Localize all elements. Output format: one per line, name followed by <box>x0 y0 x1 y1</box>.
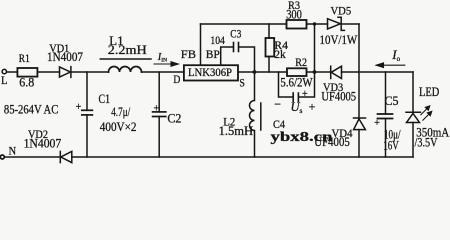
resistor R4 <box>266 38 275 57</box>
svg-text:C2: C2 <box>167 111 181 126</box>
S pin wire <box>238 71 287 73</box>
resistor R2 <box>287 68 307 76</box>
capacitor C3 <box>234 43 255 73</box>
svg-text:1N4007: 1N4007 <box>24 136 62 151</box>
svg-text:L: L <box>1 73 8 87</box>
junction R2 right node <box>313 70 317 74</box>
output wire VD3 to LED corner <box>342 71 414 73</box>
svg-text:LED: LED <box>419 84 439 99</box>
diode VD2 <box>60 151 72 162</box>
svg-text:85-264V AC: 85-264V AC <box>4 102 58 117</box>
svg-text:S: S <box>239 76 245 90</box>
svg-text:+: + <box>302 89 308 100</box>
junction S node <box>253 70 257 74</box>
svg-text:/3.5V: /3.5V <box>415 135 438 150</box>
resistor R1 <box>17 68 37 77</box>
svg-text:2.2mH: 2.2mH <box>108 42 147 57</box>
diode VD4 <box>354 118 366 157</box>
svg-text:UF4005: UF4005 <box>321 89 356 104</box>
junction rail tap node <box>313 22 316 25</box>
LED <box>406 112 421 157</box>
svg-text:C5: C5 <box>385 93 399 108</box>
core bar of L1 <box>100 58 151 60</box>
bottom rail N to VD2 <box>5 156 60 158</box>
inductor L1 <box>109 67 142 72</box>
wire L to R1 <box>7 71 18 73</box>
top rail FB to R3 <box>201 23 287 25</box>
wire VD1 to L1 <box>71 71 109 73</box>
svg-text:5.6/2W: 5.6/2W <box>280 75 313 90</box>
wire L1 to IC <box>142 71 184 73</box>
capacitor C1 <box>82 110 93 157</box>
svg-text:R1: R1 <box>19 51 30 65</box>
inductor L2 <box>250 72 255 157</box>
svg-text:R2: R2 <box>295 55 307 69</box>
resistor R3 <box>287 20 307 29</box>
svg-text:D: D <box>173 72 180 86</box>
LED vertical top <box>412 72 414 112</box>
wire R1 to VD1 <box>37 71 59 73</box>
svg-text:+: + <box>374 118 380 129</box>
wire R2 to VD3 <box>307 71 331 73</box>
resistor R4 lead bottom <box>268 57 270 73</box>
svg-text:+: + <box>154 104 160 115</box>
terminal N <box>0 155 4 159</box>
svg-text:FB: FB <box>181 47 196 61</box>
svg-text:10V/1W: 10V/1W <box>320 32 358 47</box>
svg-text:104: 104 <box>210 33 225 47</box>
diode VD3 <box>331 66 342 78</box>
node C2 tap <box>158 72 160 112</box>
svg-text:−: − <box>274 97 281 111</box>
LED emission arrows <box>421 106 432 121</box>
wire VD5 to corner <box>341 23 359 25</box>
svg-text:N: N <box>9 144 17 158</box>
capacitor C4 <box>293 72 314 101</box>
capacitor C5 <box>378 114 393 157</box>
svg-text:2k: 2k <box>274 47 286 61</box>
resistor R4 lead top <box>268 24 270 38</box>
core bar of L2 <box>260 103 262 130</box>
wire R3 to VD5 <box>307 23 328 25</box>
svg-text:300: 300 <box>286 7 302 22</box>
C5 tap <box>385 72 387 114</box>
svg-text:400V×2: 400V×2 <box>100 119 137 134</box>
svg-text:+: + <box>76 102 82 113</box>
svg-text:16V: 16V <box>383 138 399 153</box>
svg-text:C1: C1 <box>99 91 111 106</box>
svg-text:1.5mH: 1.5mH <box>219 123 254 138</box>
svg-text:VD5: VD5 <box>331 4 352 18</box>
svg-text:C4: C4 <box>273 117 285 131</box>
terminal L <box>2 69 6 73</box>
svg-text:C3: C3 <box>230 27 241 41</box>
current arrow Iin <box>154 62 178 67</box>
svg-text:BP: BP <box>206 47 220 61</box>
bottom rail VD2 to LED <box>72 156 413 158</box>
tap wire rail to R2 node <box>314 24 316 72</box>
IC U1 LNK306P box <box>184 65 238 80</box>
BP pin wire <box>221 47 233 65</box>
sense branch left <box>279 72 293 97</box>
current arrow Io <box>376 63 405 68</box>
svg-text:+: + <box>309 100 316 114</box>
svg-text:ybx8.cn: ybx8.cn <box>271 130 333 145</box>
svg-text:6.8: 6.8 <box>19 75 34 90</box>
node C1 tap <box>86 72 88 110</box>
svg-text:LNK306P: LNK306P <box>188 65 232 79</box>
svg-text:4.7μ/: 4.7μ/ <box>111 104 130 119</box>
svg-text:1N4007: 1N4007 <box>47 49 83 64</box>
FB pin wire <box>200 24 202 65</box>
zener VD5 <box>328 17 345 30</box>
capacitor C2 <box>153 112 166 157</box>
vertical VD5/VD4 line <box>358 24 360 118</box>
diode VD1 <box>60 67 71 78</box>
